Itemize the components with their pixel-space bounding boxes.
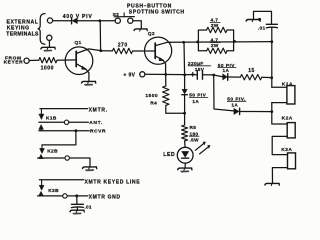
node bus/resistor-pair right: [233, 40, 236, 43]
node R6 / relay line: [270, 76, 273, 79]
resistor R6 15: [240, 75, 261, 80]
resistor R5 vertical 180 .5W: [182, 125, 188, 141]
svg-text:15V: 15V: [195, 67, 205, 73]
wire CR2 to R6: [228, 76, 241, 78]
chassis ground below K3A: [265, 183, 279, 185]
node relay line / CR3: [270, 110, 273, 113]
svg-text:1A: 1A: [231, 103, 238, 108]
node: top wire to Q1 collector drop: [98, 19, 101, 22]
wire XMTR GND contact: [38, 195, 63, 197]
capacitor C2 .01 plates: [266, 23, 277, 25]
node RCVR/K2B feed: [74, 129, 77, 132]
wire node down from C1 node: [214, 75, 234, 111]
svg-text:R4: R4: [150, 101, 157, 107]
node XMTR GND / C3: [75, 194, 78, 197]
svg-text:K3B: K3B: [48, 188, 59, 194]
K1B lower contact arrow up: [39, 125, 44, 130]
resistor R1 1000: [39, 58, 57, 63]
svg-text:KEYER: KEYER: [4, 60, 24, 66]
node main line x184.6: [183, 74, 186, 77]
diode CR3 50 PIV 1A (points right): [234, 108, 239, 114]
terminal +9V: [140, 72, 145, 77]
Q2 emitter lead with arrow: [155, 56, 163, 60]
K2A bottom stub and wire to K3A: [272, 136, 287, 154]
K1A top stub: [272, 86, 287, 88]
Q1 collector lead: [76, 49, 100, 54]
wire bus down to K1A: [271, 42, 273, 87]
node emitter/R4: [164, 73, 167, 76]
wire CR1 to S2: [77, 20, 115, 22]
wire XMTR KEYED LINE: [39, 179, 83, 181]
chassis ground at S2: [134, 29, 147, 31]
svg-text:180: 180: [190, 131, 199, 136]
relay K2A coil box: [287, 123, 295, 138]
brace for external keying terminals: [38, 14, 45, 45]
K3B arrow up: [39, 191, 44, 195]
svg-text:1A: 1A: [223, 68, 230, 73]
svg-text:270: 270: [118, 42, 128, 48]
svg-text:XMTR KEYED LINE: XMTR KEYED LINE: [85, 180, 141, 186]
transistor Q2 circle: [145, 37, 172, 64]
wire J3 to R1: [29, 59, 39, 61]
resistor R3b 4.7 2W bottom: [198, 50, 206, 52]
svg-text:XMTR.: XMTR.: [89, 107, 108, 113]
svg-text:K1B: K1B: [46, 115, 57, 121]
bracket wire chassis to .01 cap: [254, 11, 272, 24]
Q1 base bar: [75, 51, 77, 66]
capacitor C1 plates: [196, 71, 198, 80]
wire J1 to diode CR1: [53, 20, 72, 22]
wire S2 to chassis ground: [133, 21, 141, 29]
Q1 emitter lead with arrow: [76, 64, 85, 69]
K2B arrow down: [41, 145, 43, 149]
wire R6 to main right line: [262, 76, 272, 78]
wire node down to Q1 collector: [99, 21, 101, 51]
wire node to R2: [101, 50, 113, 52]
terminal J2 (external keying, ground): [47, 35, 52, 40]
diode CR2 50 PIV 1A (points right): [223, 74, 228, 80]
node bus/drop x184: [182, 41, 185, 44]
push-button switch S2 contacts: [115, 18, 120, 23]
svg-text:15: 15: [248, 68, 255, 74]
wire LED to ground: [184, 163, 186, 168]
svg-text:Q2: Q2: [148, 31, 155, 37]
svg-text:RCVR: RCVR: [90, 129, 106, 135]
svg-text:.5W: .5W: [190, 138, 200, 143]
svg-text:S2: S2: [113, 12, 120, 18]
K3A bottom stub to ground: [272, 168, 287, 183]
wire RCVR node down to K2B: [42, 131, 76, 145]
svg-text:1500: 1500: [145, 93, 158, 99]
wire J2 to ground: [48, 40, 50, 46]
ground at K2B: [83, 167, 97, 169]
K2B arrow up: [39, 154, 44, 159]
ground below J2: [41, 47, 55, 49]
LED DS1 circle: [177, 147, 193, 163]
node Q1 collector: [99, 49, 102, 52]
svg-text:.01: .01: [84, 205, 92, 210]
svg-text:R5: R5: [190, 125, 197, 130]
wire node to diode CR2: [214, 75, 223, 77]
LED triangle and bar: [182, 151, 189, 157]
svg-text:+ 9V: + 9V: [123, 72, 135, 78]
terminal J3 from keyer: [24, 58, 29, 63]
node bus/.01 line: [270, 40, 273, 43]
wire emitter node down to R4: [165, 74, 167, 86]
LED emission arrows: [195, 143, 204, 150]
chassis ground top right: [246, 20, 260, 22]
svg-text:TERMINALS: TERMINALS: [6, 31, 39, 37]
Q2 collector lead: [155, 42, 170, 45]
resistor R2 270: [112, 48, 132, 53]
diode CR1 400 V PIV (points left): [71, 18, 73, 24]
wire collector bus: [170, 41, 271, 44]
wire CR3 to relay line node: [240, 111, 272, 113]
ground below Q1 emitter: [82, 81, 96, 83]
capacitor C3 .01 plates: [71, 203, 83, 205]
ground below C3: [70, 210, 84, 212]
wire R1 to Q1 base: [57, 59, 76, 61]
svg-text:ANT.: ANT.: [89, 120, 103, 126]
svg-text:1A: 1A: [192, 99, 199, 104]
resistor R4 1500 vertical: [163, 86, 169, 105]
node bus/resistor-pair left: [196, 41, 199, 44]
resistor R3a 4.7 2W top: [198, 29, 206, 31]
svg-text:400 V PIV: 400 V PIV: [63, 14, 93, 20]
wire node to C3: [76, 196, 78, 204]
diode CR4 50 PIV 1A (points down): [182, 89, 187, 94]
resistor pair loop left side: [197, 30, 199, 51]
wire RCVR: [39, 130, 89, 132]
node after C1: [212, 74, 215, 77]
wire C2 to bus: [271, 28, 273, 42]
wire CR4 to node: [184, 95, 186, 114]
wire +9V to C1: [145, 73, 197, 75]
ground below LED: [178, 168, 192, 170]
K1A bottom stub: [272, 102, 287, 104]
wire node to R5: [184, 113, 186, 125]
svg-text:1000: 1000: [41, 65, 54, 71]
svg-text:SPOTTING SWITCH: SPOTTING SWITCH: [129, 9, 185, 15]
wire XMTR: [40, 108, 88, 110]
svg-text:K2A: K2A: [282, 115, 293, 121]
capacitor C1 220uF plus sign: [191, 73, 195, 75]
svg-text:2W: 2W: [211, 43, 219, 49]
svg-text:LED: LED: [163, 152, 175, 158]
wire node down to CR4: [184, 75, 186, 89]
relay K1A coil box: [287, 86, 295, 104]
resistor pair loop right side: [233, 30, 235, 51]
wire R5 to LED: [184, 141, 187, 147]
wire bus node down: [183, 42, 186, 75]
wire K1A to K2A: [272, 103, 287, 124]
wire C1 to node: [203, 74, 214, 76]
node CR4/R4: [183, 112, 186, 115]
svg-text:.01: .01: [258, 26, 266, 32]
Q2 base bar: [154, 43, 156, 58]
K1B moving contact arrow down: [40, 109, 42, 114]
transistor Q1 circle: [65, 47, 93, 75]
K3B arrow down: [41, 180, 43, 185]
svg-text:Q1: Q1: [74, 40, 81, 46]
svg-text:K2B: K2B: [47, 149, 58, 155]
svg-text:XMTR GND: XMTR GND: [89, 195, 121, 201]
wire R4 to node at x184: [166, 105, 185, 113]
S2 actuator bar: [114, 16, 134, 18]
wire K2B contact: [38, 157, 65, 159]
wire R2 to Q2 base: [133, 50, 156, 52]
relay K3A coil box: [288, 153, 296, 169]
wire C3 to ground: [76, 208, 78, 210]
terminal J1 (external keying, hot): [47, 18, 52, 23]
svg-text:2W: 2W: [211, 23, 219, 29]
wire ANT with contact circle: [39, 121, 64, 123]
